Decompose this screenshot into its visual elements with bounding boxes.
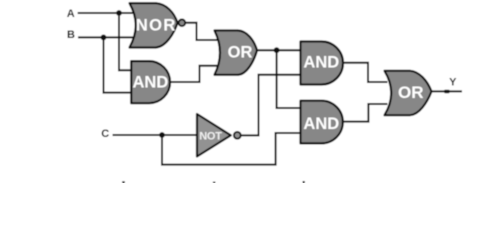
AND gate U6 body — [301, 101, 343, 144]
svg-text:C: C — [101, 128, 109, 140]
svg-text:Y: Y — [449, 77, 457, 89]
wire AND2 output to OR2 top input — [342, 63, 387, 82]
NOR gate U1 body — [130, 3, 178, 47]
wire OR1 branch down to AND3 input1 — [277, 50, 302, 108]
wire branch B down to AND1 input2 — [104, 37, 134, 92]
wire branch A down to AND1 input1 — [119, 13, 133, 70]
wire AND1 output to OR1 bottom input — [169, 66, 216, 82]
svg-text:A: A — [67, 8, 75, 20]
node blob on Y wire — [444, 90, 450, 93]
wire OR1 output to AND2 input1 — [256, 49, 302, 51]
wire input B to NOR — [79, 36, 136, 38]
node junction on B — [101, 35, 107, 41]
NOT gate U4 body — [197, 114, 231, 157]
wire NOR output to OR1 top input — [187, 23, 218, 40]
wire input A to NOR — [79, 12, 136, 14]
node junction on A — [116, 10, 122, 16]
wire AND3 output to OR2 bottom input — [342, 104, 387, 122]
NOT gate U4 bubble — [234, 132, 241, 139]
node junction on OR1 output — [274, 47, 280, 53]
svg-text:AND: AND — [303, 115, 339, 133]
svg-text:B: B — [67, 29, 75, 41]
OR gate U3 body — [215, 31, 258, 75]
svg-text:AND: AND — [303, 54, 339, 72]
AND gate U5 body — [301, 42, 344, 85]
wire NOT output up to AND2 input2 — [241, 75, 302, 136]
wire input C to NOT — [114, 134, 198, 136]
svg-text:NOT: NOT — [199, 130, 222, 142]
svg-text:AND: AND — [133, 73, 169, 91]
AND gate U2 body — [131, 61, 170, 103]
wire OR2 output Y — [431, 90, 461, 92]
wire branch C down around to AND3 input2 — [162, 133, 302, 165]
cropped text remnant mark 3 — [303, 181, 305, 183]
cropped text remnant mark 2 — [213, 182, 216, 183]
node junction on C — [159, 132, 165, 138]
svg-text:NOR: NOR — [136, 16, 177, 34]
cropped text remnant mark 1 — [122, 181, 125, 183]
OR gate U7 body — [385, 71, 432, 115]
svg-text:OR: OR — [228, 44, 253, 62]
svg-text:OR: OR — [398, 83, 424, 102]
NOR gate U1 bubble — [179, 20, 186, 27]
